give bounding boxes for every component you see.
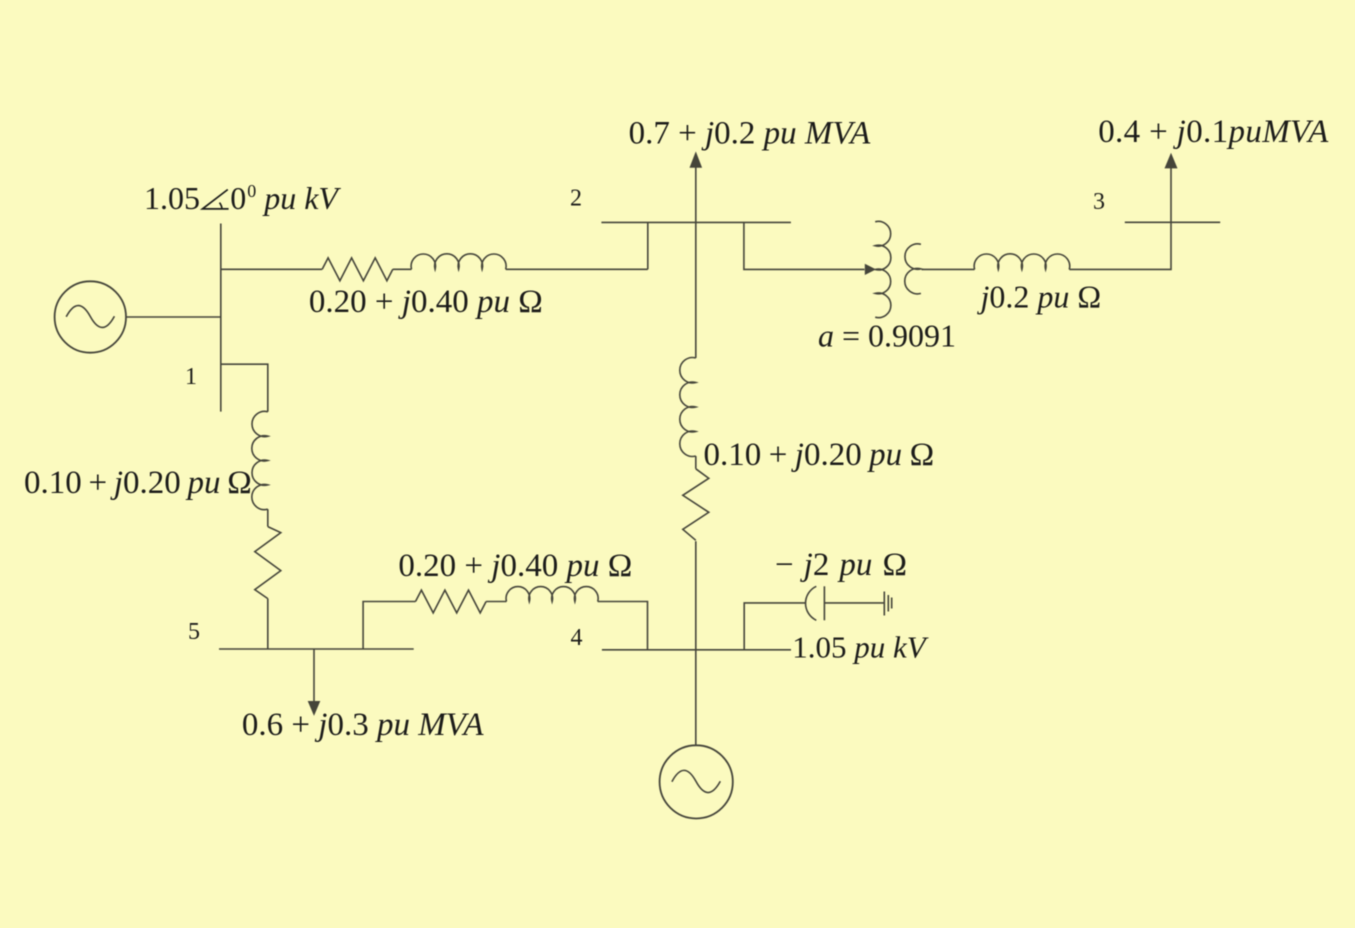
svg-text:0.20 + j0.40 pu Ω: 0.20 + j0.40 pu Ω (309, 284, 543, 320)
wire inductor L23 to bus 3 riser (1069, 222, 1171, 269)
transformer T primary winding (875, 221, 891, 317)
capacitor curved plate (806, 586, 817, 620)
wire bus 1 stub to branch 1-5 (221, 364, 268, 412)
svg-text:0.10 + j0.20 pu Ω: 0.10 + j0.20 pu Ω (704, 437, 935, 473)
wire resistor to inductor line 1-2 (393, 268, 412, 270)
wire resistor R24 to bus 4 (695, 541, 697, 650)
arrowhead into transformer primary (865, 264, 876, 275)
load arrow shaft at bus 5 (313, 649, 315, 702)
generator G1 circle (55, 281, 126, 352)
svg-text:a = 0.9091: a = 0.9091 (818, 318, 956, 354)
wire inductor L54 down to bus 4 (598, 602, 648, 650)
wire bus 4 up to capacitor (744, 603, 805, 650)
transformer T secondary winding (905, 244, 921, 294)
svg-text:− j2 pu Ω: − j2 pu Ω (775, 547, 907, 583)
wire resistor R15 to bus 5 (267, 599, 269, 649)
resistor of line 2-4 (683, 469, 709, 541)
bus 3 bar (1125, 221, 1220, 223)
ground bar 3 (891, 598, 893, 609)
svg-text:4: 4 (571, 625, 583, 651)
wire inductor to resistor line 2-4 (695, 456, 697, 469)
svg-text:2: 2 (570, 186, 582, 212)
svg-text:0.6 + j0.3 pu MVA: 0.6 + j0.3 pu MVA (242, 707, 484, 743)
wire bus 2 down to inductor L24 (695, 222, 697, 358)
wire riser to bus 2 (647, 222, 649, 269)
svg-text:0.20 + j0.40 pu Ω: 0.20 + j0.40 pu Ω (398, 548, 632, 584)
ground bar 2 (887, 595, 889, 612)
svg-text:0.10 + j0.20 pu Ω: 0.10 + j0.20 pu Ω (24, 465, 252, 501)
load arrowhead at bus 3 (1165, 153, 1178, 169)
bus 4 bar (602, 649, 791, 651)
inductor of line 2-4 (680, 358, 696, 457)
wire resistor to inductor line 5-4 (486, 601, 506, 603)
svg-text:1.05: 1.05 (144, 180, 200, 216)
bus 2 bar (601, 221, 791, 223)
generator G2 circle (660, 745, 733, 818)
inductor of line 1-2 (411, 254, 506, 269)
wire bus 5 riser to line 5-4 (363, 602, 415, 650)
load arrow shaft at bus 3 (1170, 167, 1172, 222)
wire G1 to bus 1 (126, 316, 221, 318)
wire inductor to resistor line 1-5 (267, 509, 269, 526)
svg-text:1: 1 (185, 364, 197, 390)
svg-text:5: 5 (188, 619, 200, 645)
angle symbol of bus 1 voltage label (202, 190, 228, 209)
resistor of line 5-4 (416, 590, 487, 613)
wire transformer secondary to inductor L23 (922, 268, 975, 270)
bus 1 bar (220, 224, 222, 412)
load arrow shaft at bus 2 (695, 167, 697, 223)
svg-text:1.05 pu kV: 1.05 pu kV (792, 630, 929, 665)
inductor of line 1-5 (252, 411, 268, 509)
bus 5 bar (219, 648, 414, 650)
load arrowhead at bus 5 (308, 701, 321, 716)
wire inductor to bus 2 corner (506, 268, 648, 270)
inductor of line 5-4 (506, 587, 598, 602)
resistor of line 1-5 (255, 527, 281, 599)
svg-text:j0.2 pu Ω: j0.2 pu Ω (977, 279, 1102, 315)
wire bus1 to resistor R12 (221, 268, 322, 270)
inductor of line 2-3 (974, 254, 1070, 270)
wire bus 4 to generator G2 (695, 650, 697, 746)
capacitor straight plate (823, 586, 825, 620)
svg-text:0.7 + j0.2 pu MVA: 0.7 + j0.2 pu MVA (629, 116, 871, 152)
wire bus 2 to transformer primary (744, 222, 865, 269)
svg-text:0.4 + j0.1puMVA: 0.4 + j0.1puMVA (1098, 114, 1329, 150)
svg-text:3: 3 (1093, 189, 1105, 215)
ground bar 1 (883, 592, 885, 616)
generator G2 sine wave (672, 770, 720, 792)
wire capacitor to ground (824, 602, 884, 604)
resistor of line 1-2 (322, 258, 393, 281)
load arrowhead at bus 2 (690, 151, 703, 167)
generator G1 sine wave (66, 306, 114, 328)
